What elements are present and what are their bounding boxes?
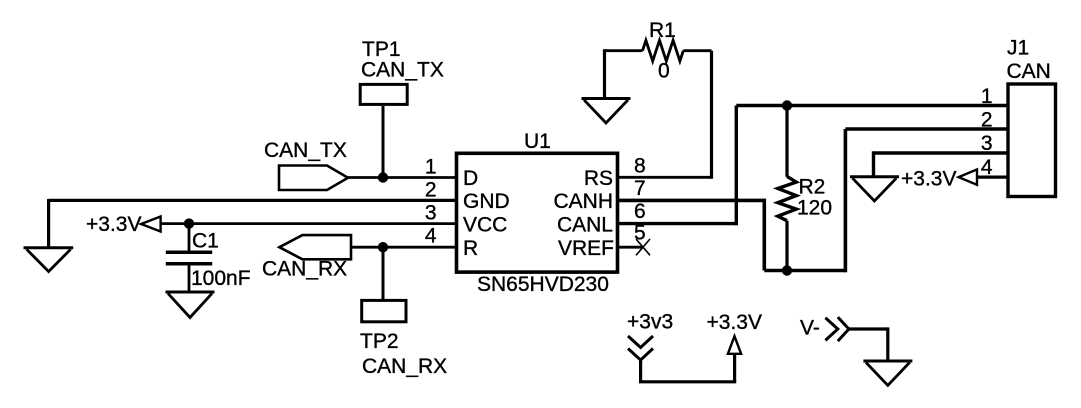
svg-text:CAN: CAN [1007,60,1051,83]
ground R1 [582,99,631,124]
wire +3v3 to +3.3V tie [639,355,736,382]
svg-text:0: 0 [658,60,670,83]
ground V- [863,361,912,385]
test point TP1 [360,38,444,104]
wire V- to ground [849,327,888,361]
wire GND net to U1 pin 2 [49,199,456,247]
wire U1 pin 7 CANH net [618,129,1009,272]
svg-text:100nF: 100nF [191,267,251,290]
svg-text:R2: R2 [799,176,826,199]
power port +3v3 chevron [627,311,673,361]
svg-text:TP2: TP2 [360,330,399,353]
svg-text:GND: GND [463,190,510,213]
wire U1 pin 5 VREF stub [618,246,644,249]
svg-text:SN65HVD230: SN65HVD230 [477,273,609,296]
svg-text:1: 1 [425,156,437,179]
svg-text:+3.3V: +3.3V [707,311,762,334]
svg-text:CAN_TX: CAN_TX [361,59,444,82]
svg-text:U1: U1 [524,130,551,153]
wire TP2 to CAN_RX net [382,247,385,299]
wire TP1 to CAN_TX net [382,106,385,178]
ground GND left [24,248,74,272]
svg-text:R1: R1 [649,19,676,42]
svg-text:+3.3V: +3.3V [901,168,956,191]
connector J1 [1007,37,1056,197]
no-connect X on pin 5 [636,239,650,255]
junction CAN_RX / TP2 [378,242,388,252]
wire C1 bottom lead [188,266,191,293]
svg-text:+3v3: +3v3 [627,311,673,334]
junction CAN_TX / TP1 [378,172,388,182]
svg-text:CANH: CANH [553,190,613,213]
wire R2 top lead [785,106,788,177]
wire +3.3V to U1 pin 3 VCC [161,222,456,225]
capacitor C1 [166,229,251,290]
power port +3.3V at VCC [86,213,161,236]
resistor R1 [643,19,684,83]
op-amp U1 body [457,130,618,296]
resistor R2 [778,176,832,221]
wire R2 bottom lead [785,221,788,271]
svg-text:4: 4 [425,225,437,248]
svg-text:6: 6 [634,200,646,223]
svg-text:1: 1 [981,85,993,108]
svg-text:D: D [463,167,478,190]
svg-text:J1: J1 [1007,37,1029,60]
svg-text:VREF: VREF [558,237,614,260]
svg-text:CAN_RX: CAN_RX [262,258,347,281]
svg-text:2: 2 [425,179,437,202]
svg-text:CAN_RX: CAN_RX [362,355,447,378]
power port V- chevron [800,317,849,342]
junction VCC / C1 [184,218,194,228]
ground C1 [166,292,215,318]
net flag CAN_TX [264,139,348,190]
svg-text:+3.3V: +3.3V [86,213,141,236]
svg-text:8: 8 [634,155,646,178]
ground J1 pin 3 [850,177,899,201]
wire U1 pin 8 RS net [618,51,712,179]
wire U1 pin 6 CANL net [618,106,1009,226]
svg-text:7: 7 [634,177,646,200]
svg-text:R: R [463,237,478,260]
svg-text:CAN_TX: CAN_TX [264,139,347,162]
svg-text:2: 2 [981,109,993,132]
wire +3.3V to J1 pin 4 [977,176,1008,179]
svg-text:3: 3 [425,202,437,225]
wire J1 pin 3 to ground [874,151,1009,177]
power port +3.3V at J1 pin 4 [901,168,977,191]
wire CAN_TX to U1 pin 1 [348,176,456,179]
svg-text:120: 120 [797,197,832,220]
junction R2 top [782,100,792,110]
svg-text:RS: RS [584,167,613,190]
wire R1 to ground [605,49,643,98]
test point TP2 [360,300,447,378]
net flag CAN_RX [262,235,351,280]
junction R2 bottom [782,265,792,275]
svg-text:CANL: CANL [557,213,613,236]
wire C1 top lead [188,224,191,251]
svg-text:VCC: VCC [463,213,507,236]
wire CAN_RX to U1 pin 4 [351,246,456,249]
svg-text:V-: V- [800,317,820,340]
svg-text:C1: C1 [192,229,219,252]
power port +3.3V up arrow [707,311,762,354]
